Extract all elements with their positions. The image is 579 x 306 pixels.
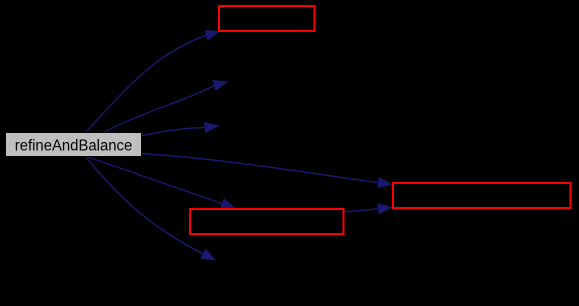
edge refineAndBalance -> middle node (straight) [88,157,222,204]
node refineAndBalance (current, grey) [6,133,142,157]
edge refineAndBalance -> right node (long) [141,154,379,183]
arrowhead hidden node 2 [213,81,227,91]
edge refineAndBalance -> hidden node 2 [102,85,214,133]
svg-text:refineAndBalance: refineAndBalance [15,138,133,155]
edge refineAndBalance -> top node (curve) [85,35,207,133]
arrowhead middle node [221,199,235,208]
arrowhead hidden node 3 [205,122,219,132]
edge refineAndBalance -> bottom hidden node [86,157,204,254]
edge refineAndBalance -> hidden node 3 [141,127,205,136]
node middle (truncated, red border) [190,209,344,234]
arrowhead right node lower [378,204,392,214]
arrowhead bottom hidden node [201,250,215,261]
arrowhead right node upper [378,178,392,188]
node right (truncated, red border) [393,183,571,208]
arrowhead top node [205,31,219,41]
node top (truncated, red border) [219,6,315,31]
edge middle node -> right node [344,209,379,212]
